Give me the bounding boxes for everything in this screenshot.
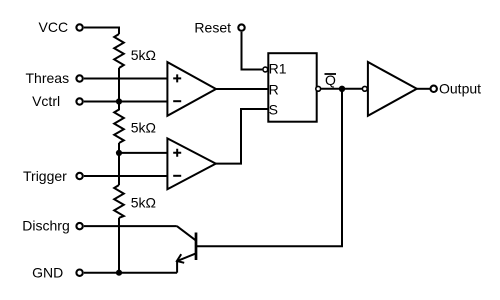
buffer U3 triangle (368, 62, 417, 116)
terminal Reset (238, 24, 244, 30)
terminal GND (76, 270, 82, 276)
bubble buffer input (362, 86, 367, 91)
svg-text:R1: R1 (269, 60, 287, 76)
wire node2 to comparator2 plus (119, 152, 167, 154)
wire chain node2 to R3 (118, 153, 120, 185)
svg-text:R: R (269, 81, 279, 97)
wire U2 output to S input (216, 109, 268, 164)
bubble Q-bar output (316, 86, 321, 91)
svg-text:Reset: Reset (194, 20, 231, 36)
svg-text:Vctrl: Vctrl (32, 93, 60, 109)
transistor Q1 emitter arrow (177, 254, 184, 263)
svg-text:5kΩ: 5kΩ (131, 195, 156, 211)
svg-text:Trigger: Trigger (23, 168, 67, 184)
node junction R2-R3 (116, 150, 122, 156)
minus sign U2 (173, 175, 181, 177)
wire Trigger to comparator2 minus (84, 175, 168, 177)
op-amp U1 comparator triangle (167, 62, 216, 116)
svg-text:GND: GND (32, 264, 63, 280)
transistor Q1 emitter diagonal (177, 254, 195, 262)
wire Q-bar to buffer (321, 88, 362, 90)
transistor Q1 base bar (195, 233, 198, 261)
bubble R1 input (263, 67, 268, 72)
wire chain R3 to ground rail (118, 218, 120, 273)
svg-text:Dischrg: Dischrg (22, 218, 69, 234)
wire Dischrg to transistor collector (84, 225, 177, 227)
wire emitter to GND rail (176, 261, 178, 273)
transistor Q1 collector diagonal (177, 226, 196, 240)
svg-text:Output: Output (439, 81, 481, 97)
svg-text:5kΩ: 5kΩ (131, 119, 156, 135)
node junction R1-R2 (116, 98, 122, 104)
overline of Q (325, 73, 337, 75)
plus sign U2 (173, 149, 181, 157)
terminal VCC (76, 24, 82, 30)
minus sign U1 (173, 100, 181, 102)
wire VCC to divider chain (84, 28, 119, 35)
resistor R2 5k middle (114, 102, 124, 144)
node junction chain-GND (116, 270, 122, 276)
terminal Threas (76, 75, 82, 81)
plus sign U1 (173, 74, 181, 82)
wire Vctrl to comparator minus (84, 101, 168, 103)
wire Reset to R1 input (242, 32, 263, 70)
terminal Output (431, 86, 437, 92)
wire buffer output (417, 88, 430, 90)
terminal Dischrg (76, 223, 82, 229)
wire chain R2 to node2 (118, 143, 120, 153)
resistor R1 5k top (114, 34, 124, 68)
resistor R3 5k bottom (114, 185, 124, 218)
wire U1 output to R input (216, 88, 268, 90)
flip-flop U4 box (268, 53, 316, 122)
wire chain R1 to node1 (118, 68, 120, 102)
wire GND rail (84, 272, 177, 274)
wire Threas to comparator plus (84, 78, 168, 80)
svg-text:Threas: Threas (26, 70, 70, 86)
svg-text:VCC: VCC (39, 19, 69, 35)
terminal Vctrl (76, 98, 82, 104)
terminal Trigger (76, 173, 82, 179)
op-amp U2 comparator triangle (167, 138, 215, 189)
svg-text:S: S (269, 101, 278, 117)
wire Q-bar node down to transistor base (197, 89, 342, 247)
svg-text:5kΩ: 5kΩ (131, 47, 156, 63)
node junction Q-bar (339, 86, 345, 92)
